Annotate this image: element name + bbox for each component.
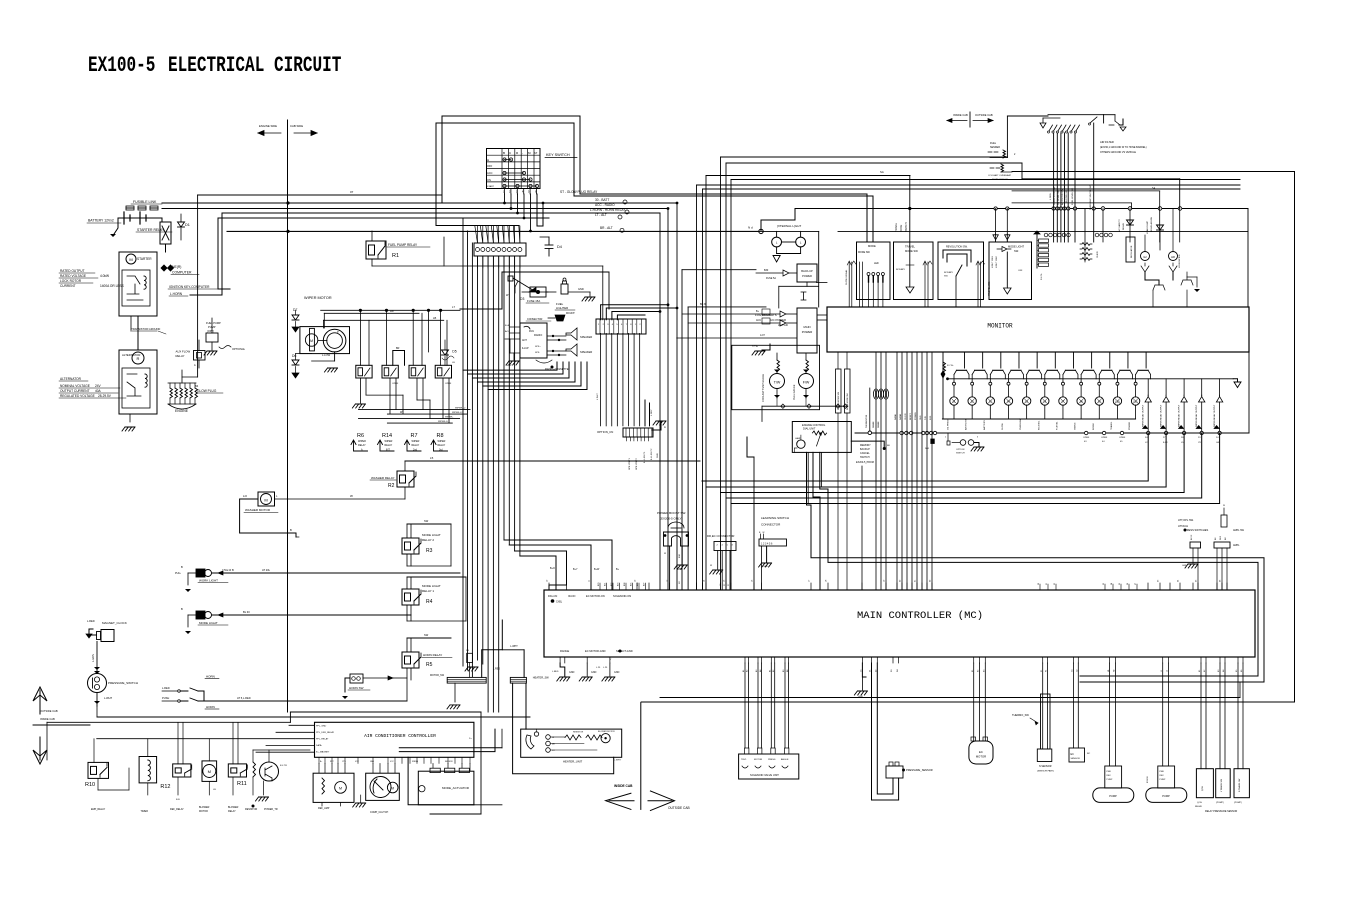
key switch outer loop wire <box>442 116 867 242</box>
svg-text:RXD: RXD <box>930 415 932 420</box>
svg-text:28-29.5V: 28-29.5V <box>98 394 112 398</box>
svg-text:ALT GD: ALT GD <box>778 323 788 327</box>
engine dial wire <box>851 441 890 590</box>
wiper top bus3 <box>324 316 444 328</box>
EC motor <box>966 663 996 764</box>
speaker SP2 <box>547 344 592 356</box>
radio output wires <box>463 362 587 390</box>
svg-text:RESET: RESET <box>910 413 912 420</box>
fusible link F1 <box>126 200 162 210</box>
svg-text:R1: R1 <box>392 253 399 259</box>
work light switch SW1 <box>175 565 228 592</box>
svg-text:OVERHEAT SWITCH SW.: OVERHEAT SWITCH SW. <box>1089 184 1092 210</box>
svg-text:KEY SWITCH: KEY SWITCH <box>546 153 570 157</box>
svg-text:L.25: L.25 <box>603 667 608 669</box>
relay R5 horn relay <box>402 633 452 701</box>
ac pin stubs bottom <box>319 757 470 763</box>
propel switch box <box>938 242 991 307</box>
svg-text:GND: GND <box>578 287 584 291</box>
svg-text:ANT: ANT <box>522 339 527 342</box>
svg-text:WORK: WORK <box>1093 423 1095 430</box>
svg-text:EX100: EX100 <box>1147 776 1149 783</box>
svg-text:VCC: VCC <box>390 761 394 763</box>
svg-text:BLOWER MOTOR: BLOWER MOTOR <box>598 731 615 733</box>
svg-text:RANGE: RANGE <box>560 649 569 653</box>
svg-text:RELAY: RELAY <box>1122 222 1125 230</box>
svg-text:WORK LIGHT: WORK LIGHT <box>199 579 218 583</box>
lamp labels <box>948 417 1132 430</box>
svg-text:ELECTRICAL CIRCUIT: ELECTRICAL CIRCUIT <box>168 53 341 78</box>
svg-text:B30: B30 <box>764 269 769 272</box>
lamp frame resistor <box>941 352 954 419</box>
wiper D7 diode <box>292 308 299 332</box>
svg-text:P: P <box>337 330 339 334</box>
connector strip CN3 lower <box>597 421 666 470</box>
svg-text:ST - GLOW PLUG RELAY: ST - GLOW PLUG RELAY <box>560 190 598 194</box>
svg-text:PRESSURE_SWITCH: PRESSURE_SWITCH <box>108 681 138 685</box>
key pin4 wire <box>523 194 526 219</box>
magnet clock <box>86 619 127 642</box>
relay R4 mode light relay 1 <box>402 577 466 621</box>
mode light switch SW2 <box>181 607 228 634</box>
relay R14 wiper relay INT <box>378 433 395 452</box>
svg-text:MOUNT: MOUNT <box>566 312 575 315</box>
svg-text:L.LOW: L.LOW <box>322 353 331 357</box>
svg-text:RATED OUTPUT: RATED OUTPUT <box>60 269 85 273</box>
svg-text:FM1: FM1 <box>529 330 534 333</box>
svg-text:RELAY: RELAY <box>1195 805 1203 808</box>
vert 481 bottom <box>430 712 481 814</box>
svg-text:REV: REV <box>1107 775 1112 777</box>
svg-text:HORN RELAY: HORN RELAY <box>423 653 442 657</box>
alternator G1 box <box>119 350 157 431</box>
svg-text:D1: D1 <box>185 223 190 227</box>
sensor switch bank top <box>1040 115 1104 133</box>
MC top-left step wires <box>504 540 620 590</box>
MC bottom stub labels <box>560 657 1243 663</box>
pressure switch PS1 <box>88 674 139 707</box>
option switch symbol <box>945 433 984 455</box>
svg-text:Y8: Y8 <box>1198 442 1201 444</box>
svg-text:WIPER MOTOR: WIPER MOTOR <box>304 296 332 300</box>
svg-text:18: 18 <box>826 579 828 582</box>
lamp row L1-L11 transistors and lamps <box>950 352 1151 419</box>
svg-text:OUTSIDE CAB: OUTSIDE CAB <box>40 709 58 713</box>
svg-text:B+W: B+W <box>594 568 600 571</box>
svg-text:WIPER RELAY OUTPUT: WIPER RELAY OUTPUT <box>1142 404 1145 427</box>
mode actuator bottom wire <box>408 757 502 805</box>
svg-text:AIR FILTER: AIR FILTER <box>1100 140 1114 144</box>
wiper relay drops <box>352 378 449 423</box>
svg-text:B 4 TR: B 4 TR <box>280 765 287 767</box>
main controller box <box>544 590 1255 657</box>
inside cab arrow <box>606 784 634 809</box>
svg-text:4.0kW: 4.0kW <box>100 274 109 278</box>
svg-text:L11: L11 <box>1134 401 1139 404</box>
pump 2 <box>1146 663 1187 802</box>
svg-text:FUSE 5A: FUSE 5A <box>766 277 776 280</box>
travel mode switch wire <box>895 176 910 243</box>
svg-text:PUMP: PUMP <box>1160 779 1166 781</box>
svg-text:G2: G2 <box>1143 255 1147 259</box>
svg-text:FUSE 15A: FUSE 15A <box>527 299 540 303</box>
svg-text:DIAL UNIT: DIAL UNIT <box>803 427 816 431</box>
svg-text:WIPER+: WIPER+ <box>445 417 454 419</box>
svg-text:SPK-: SPK- <box>535 352 540 354</box>
svg-text:B25: B25 <box>630 583 632 586</box>
svg-text:44: 44 <box>1102 441 1105 443</box>
svg-text:30 - BATT: 30 - BATT <box>595 198 609 202</box>
svg-text:F/W: F/W <box>803 381 810 385</box>
fuel lighter plug <box>522 278 595 310</box>
svg-text:GLOW PLUG: GLOW PLUG <box>197 389 217 393</box>
svg-text:B23: B23 <box>617 583 619 586</box>
svg-text:PUMP: PUMP <box>1107 779 1113 781</box>
solenoid valve unit <box>739 663 799 779</box>
svg-text:W: W <box>506 293 509 297</box>
svg-text:19: 19 <box>884 579 886 582</box>
svg-text:07: 07 <box>350 190 354 194</box>
key switch pins <box>503 189 537 195</box>
relay R2 <box>370 456 470 499</box>
main power to monitor <box>817 315 827 320</box>
svg-text:L: L <box>800 241 802 245</box>
svg-text:SWING: SWING <box>1075 422 1077 430</box>
learning switch connector <box>759 516 789 590</box>
svg-text:18: 18 <box>679 581 681 584</box>
MC internal top labels <box>548 594 631 604</box>
svg-text:PRESS SWITCHES: PRESS SWITCHES <box>1185 528 1208 532</box>
ac pin drops <box>319 764 470 774</box>
svg-text:L.RED: L.RED <box>162 686 170 690</box>
svg-text:B+Y: B+Y <box>573 568 578 571</box>
vertical wire v682 <box>682 270 756 590</box>
svg-text:B8: B8 <box>887 445 890 447</box>
svg-text:DEF_RELAY: DEF_RELAY <box>170 808 184 811</box>
vertical wire v697 <box>697 185 1241 590</box>
svg-text:PRESSURE_SENSOR: PRESSURE_SENSOR <box>906 768 933 772</box>
svg-text:OPEN: OPEN <box>1101 437 1108 439</box>
svg-text:REV: REV <box>1160 775 1165 777</box>
svg-text:LB: LB <box>452 362 455 364</box>
svg-text:B16: B16 <box>679 553 681 558</box>
svg-text:14: 14 <box>704 579 706 582</box>
svg-text:(OPT): (OPT) <box>207 329 214 333</box>
svg-text:R7: R7 <box>411 433 418 439</box>
svg-text:B8: B8 <box>1225 537 1227 540</box>
right wire y202 <box>1012 203 1132 209</box>
svg-text:COOLANT OVERHEAT: COOLANT OVERHEAT <box>988 174 1012 177</box>
MC wrap loop outer <box>811 505 1264 682</box>
svg-text:CHECK: CHECK <box>1097 250 1099 258</box>
svg-text:HORN: HORN <box>206 705 215 709</box>
starter spec text <box>59 269 124 288</box>
svg-text:23: 23 <box>1198 437 1201 439</box>
svg-text:D5: D5 <box>452 350 456 354</box>
svg-text:2: 2 <box>717 545 719 547</box>
horn switch upper <box>162 675 219 702</box>
relay R1 <box>366 231 603 320</box>
monitor top right components <box>1103 209 1200 308</box>
svg-text:LB: LB <box>433 316 436 320</box>
svg-text:ROTARY: ROTARY <box>896 268 905 271</box>
svg-text:L.WHT: L.WHT <box>104 696 112 700</box>
svg-text:M: M <box>264 498 267 503</box>
svg-text:26: 26 <box>1220 579 1222 582</box>
svg-text:B: B <box>503 151 505 155</box>
bus wire LT-ALT <box>218 213 622 289</box>
svg-text:D4: D4 <box>557 245 562 249</box>
svg-text:HOUR METER: HOUR METER <box>1179 254 1181 268</box>
svg-text:R2: R2 <box>388 483 395 489</box>
svg-text:NE(R): NE(R) <box>172 265 181 269</box>
svg-text:POWER BOOST SW.: POWER BOOST SW. <box>657 511 686 515</box>
svg-text:RELAY: RELAY <box>385 444 393 447</box>
mode light sw box <box>989 234 1032 300</box>
ac left pin labels <box>316 726 335 754</box>
svg-text:OPEN: OPEN <box>1119 437 1126 439</box>
starter motor M1 box <box>119 252 157 316</box>
svg-text:ENGINE: ENGINE <box>175 409 189 413</box>
svg-text:GND: GND <box>569 671 575 674</box>
svg-text:ALTERNATOR: ALTERNATOR <box>60 377 82 381</box>
svg-text:(EX150,1 GROUND W TO HOSE BARR: (EX150,1 GROUND W TO HOSE BARREL) <box>1100 146 1147 149</box>
overheat switch wire <box>1088 117 1097 242</box>
svg-text:ROTARY: ROTARY <box>944 271 953 274</box>
svg-text:CANCEL: CANCEL <box>860 452 870 455</box>
svg-text:MEMORY: MEMORY <box>860 444 871 447</box>
svg-text:1: 1 <box>945 437 947 439</box>
work light wire <box>212 568 461 575</box>
svg-text:SOLENOID VALVE UNIT: SOLENOID VALVE UNIT <box>750 773 779 777</box>
diodes above mode light box <box>993 209 1010 242</box>
svg-text:SPEAKER: SPEAKER <box>580 335 592 339</box>
svg-text:SPK.VOLT1: SPK.VOLT1 <box>629 457 631 470</box>
svg-text:LOCK ROTOR: LOCK ROTOR <box>60 279 82 283</box>
blower motor <box>199 739 217 813</box>
svg-text:LEARNING SWITCH: LEARNING SWITCH <box>761 516 789 520</box>
key switch table <box>487 149 541 189</box>
svg-text:W: W <box>350 494 353 498</box>
svg-text:M: M <box>339 787 342 791</box>
key switch inner loop wire <box>436 123 873 242</box>
svg-text:A: A <box>664 425 666 429</box>
svg-text:OUTPUT CURRENT: OUTPUT CURRENT <box>60 389 90 393</box>
svg-text:B6: B6 <box>1215 537 1217 540</box>
svg-text:RATED VOLTAGE: RATED VOLTAGE <box>60 274 86 278</box>
svg-text:MODE_ACTUATOR: MODE_ACTUATOR <box>442 786 470 790</box>
pump 1 <box>1093 663 1134 802</box>
svg-text:R TRAVEL SW: R TRAVEL SW <box>1238 779 1241 792</box>
svg-text:AUX FLOW: AUX FLOW <box>176 350 191 354</box>
svg-text:SA: SA <box>1152 187 1156 190</box>
svg-text:OUTSIDE CAB: OUTSIDE CAB <box>668 806 690 810</box>
svg-text:GND: GND <box>591 671 597 674</box>
external light label <box>777 224 801 228</box>
transistor common rail <box>948 379 1242 388</box>
svg-text:B6 30: B6 30 <box>700 303 707 306</box>
svg-text:SPEAKER: SPEAKER <box>580 350 592 354</box>
cascade wire 5 <box>731 433 1220 504</box>
svg-text:GND: GND <box>1182 565 1187 567</box>
svg-text:EX100-5: EX100-5 <box>88 53 155 78</box>
svg-text:BLOWER: BLOWER <box>199 806 210 809</box>
svg-text:GND: GND <box>657 453 659 458</box>
bus 231 monitor top <box>227 231 1248 307</box>
svg-text:SWITCH: SWITCH <box>860 456 870 459</box>
resistor ladder column <box>1034 231 1049 280</box>
svg-text:RELAY 1: RELAY 1 <box>422 589 434 593</box>
svg-text:AT 5,L.RED: AT 5,L.RED <box>237 696 251 700</box>
wiper relay row <box>356 365 452 385</box>
heater wires <box>513 683 614 774</box>
gauge T/W <box>762 353 785 402</box>
svg-text:W: W <box>763 532 765 534</box>
relay R11 <box>228 722 247 813</box>
monitor drop to bus433 <box>866 388 872 435</box>
MC bottom pin labels <box>742 669 1243 672</box>
svg-text:WORK MODE SW: WORK MODE SW <box>847 393 849 410</box>
svg-text:BLOWER: BLOWER <box>228 806 239 809</box>
svg-text:INSIDE CAB: INSIDE CAB <box>40 717 55 721</box>
svg-text:WIPER: WIPER <box>438 440 446 443</box>
svg-text:MODE LIGHT: MODE LIGHT <box>199 621 218 625</box>
right wire y190 <box>1012 187 1160 209</box>
svg-text:R 4.7k: R 4.7k <box>1041 273 1043 280</box>
power boost switch <box>657 511 689 590</box>
svg-text:CONNECTOR: CONNECTOR <box>761 523 781 527</box>
diode columns below monitor <box>1142 352 1249 435</box>
svg-text:BATTERY 12Vx2: BATTERY 12Vx2 <box>88 219 114 223</box>
svg-text:L.25: L.25 <box>596 667 601 669</box>
svg-text:FUEL: FUEL <box>990 142 997 145</box>
aux flow relay box <box>176 340 206 368</box>
svg-text:33: 33 <box>1103 583 1105 585</box>
svg-text:SA: SA <box>880 170 884 174</box>
svg-text:INT: INT <box>386 449 390 452</box>
alternator spec text <box>59 377 126 398</box>
svg-text:M: M <box>391 787 394 791</box>
svg-text:FUEL PUMP RELAY: FUEL PUMP RELAY <box>388 243 418 247</box>
svg-text:R12: R12 <box>160 784 170 790</box>
svg-text:ZB: ZB <box>466 650 469 652</box>
svg-text:AT 20L: AT 20L <box>262 568 271 572</box>
svg-text:Y: Y <box>610 659 612 661</box>
bus wire 30-BATT <box>162 198 677 205</box>
svg-text:L.GRN: L.GRN <box>1050 193 1052 200</box>
ac controller box <box>315 722 474 757</box>
bottom bus 702 <box>641 701 1294 703</box>
washer motor M3 <box>240 492 405 537</box>
svg-text:START: START <box>487 185 495 188</box>
capacitor D4 <box>540 237 562 256</box>
relay R7 wiper relay 2nd <box>405 433 422 452</box>
svg-text:POWER: POWER <box>915 412 917 420</box>
MC gnd stub 2 <box>579 663 601 681</box>
radio area frame <box>460 272 609 309</box>
svg-text:L9: L9 <box>1098 401 1101 404</box>
svg-text:SW.: SW. <box>1014 249 1019 253</box>
svg-text:D3: D3 <box>520 297 524 301</box>
relay pressure label <box>1205 810 1237 813</box>
svg-text:WIPER-G: WIPER-G <box>438 421 448 423</box>
cascade wire 4 <box>726 433 1202 498</box>
radio antenna mount <box>548 312 575 321</box>
svg-text:L.RED: L.RED <box>87 619 95 623</box>
svg-text:POWER: POWER <box>802 274 812 278</box>
R2 to work area wire <box>405 460 700 462</box>
center wire bundle verticals <box>463 218 520 712</box>
svg-text:SENSOR: SENSOR <box>445 761 453 763</box>
right bus drop 1248 <box>1247 209 1249 308</box>
svg-text:B4: B4 <box>195 384 199 388</box>
svg-text:31: 31 <box>1046 583 1048 585</box>
svg-text:37: 37 <box>1135 583 1137 585</box>
svg-text:OPTION_CN: OPTION_CN <box>597 430 613 434</box>
svg-text:2nd: 2nd <box>413 449 418 452</box>
vertical wire v706 <box>706 170 910 590</box>
svg-text:WIPER RELAY OUTPUT: WIPER RELAY OUTPUT <box>1195 404 1198 427</box>
svg-text:RST: RST <box>330 761 334 763</box>
svg-text:LED: LED <box>874 262 879 265</box>
compressor gnd <box>353 795 366 807</box>
sensor wire bundle <box>1050 133 1075 242</box>
svg-text:RELAY 2: RELAY 2 <box>422 538 434 542</box>
mode pill boxes <box>836 352 851 590</box>
svg-text:BR: BR <box>396 347 400 350</box>
svg-text:PPL_DFR_RELAY: PPL_DFR_RELAY <box>316 731 335 734</box>
svg-text:LIGHT SW1: LIGHT SW1 <box>992 255 994 268</box>
starter relay K1 <box>136 222 172 252</box>
svg-text:SWITCH: SWITCH <box>956 453 965 455</box>
svg-text:CONNECTOR: CONNECTOR <box>527 318 543 321</box>
svg-text:R14: R14 <box>382 433 392 439</box>
svg-text:COMP_CLUTCH: COMP_CLUTCH <box>370 811 388 814</box>
svg-text:STARTER: STARTER <box>137 257 152 261</box>
mode light wire <box>212 610 412 617</box>
svg-text:FRESH: FRESH <box>412 761 419 763</box>
vertical wire v660 <box>659 213 661 590</box>
transistor ground label <box>131 327 167 334</box>
cab divider vertical wire <box>287 120 289 712</box>
svg-text:[XTERNAL L]GHT: [XTERNAL L]GHT <box>777 224 801 228</box>
gauge bus <box>762 398 848 422</box>
key pin1 wire <box>503 194 506 204</box>
svg-text:7.5Gr-R B: 7.5Gr-R B <box>222 568 234 572</box>
connector strip CN1 <box>474 226 526 268</box>
svg-text:FUEL LEVEL SW.: FUEL LEVEL SW. <box>1072 187 1074 205</box>
svg-text:W: W <box>1223 505 1225 507</box>
svg-text:TIMER: TIMER <box>141 810 149 813</box>
small fuse circles row <box>1044 233 1112 237</box>
NE(R) computer diode pair <box>161 265 199 275</box>
air filter note <box>1100 140 1147 154</box>
svg-text:GLOW: GLOW <box>1002 422 1004 430</box>
svg-text:(PUMP): (PUMP) <box>1234 802 1242 804</box>
svg-text:L5: L5 <box>430 456 434 460</box>
relay box right 3 <box>1234 663 1249 804</box>
key pin5 wire <box>529 194 532 232</box>
MC gnd stub 1 <box>552 663 575 681</box>
arrow engine side <box>258 124 281 136</box>
svg-text:22: 22 <box>930 579 932 582</box>
MC internal bottom labels <box>560 649 633 653</box>
svg-text:EC: EC <box>1071 753 1075 756</box>
svg-text:B21: B21 <box>604 583 606 586</box>
svg-text:W: W <box>400 411 403 414</box>
long wire x754 <box>747 437 754 590</box>
svg-text:HR: HR <box>1171 255 1175 259</box>
